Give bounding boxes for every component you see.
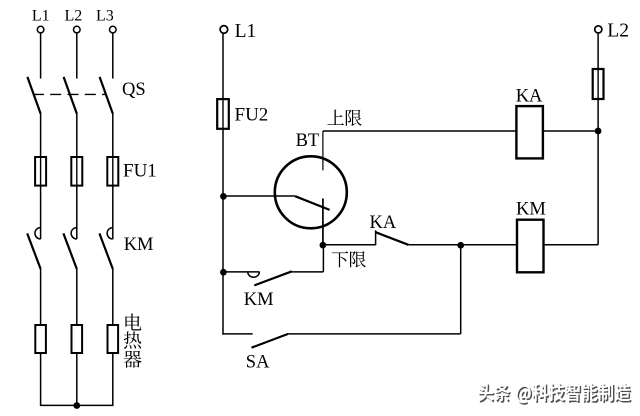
wire — [461, 244, 517, 246]
node: KM aux junction — [220, 269, 227, 276]
wire — [291, 271, 323, 273]
svg-text:SA: SA — [246, 353, 270, 373]
wire — [40, 186, 42, 239]
fuse FU2 — [217, 99, 229, 129]
wire — [76, 33, 78, 78]
svg-text:L1: L1 — [235, 21, 257, 42]
node: KA output junction — [595, 128, 602, 135]
bottom bus wire — [40, 404, 114, 406]
svg-text:KA: KA — [370, 213, 397, 233]
wire — [223, 271, 260, 273]
wire — [322, 245, 324, 272]
fuse FU1 pole 2 — [71, 157, 82, 186]
wire — [544, 244, 599, 246]
wire — [112, 269, 114, 325]
wire — [222, 272, 224, 335]
terminal L1 (control) — [220, 26, 228, 34]
wire — [222, 33, 224, 99]
wire — [222, 333, 252, 335]
wire — [40, 269, 42, 325]
node 上限 label — [327, 110, 344, 125]
wire — [76, 186, 78, 239]
fuse FU1 pole 3 — [107, 157, 118, 186]
wire 上限 to KA coil — [323, 130, 517, 132]
wire — [112, 113, 114, 157]
svg-text:L3: L3 — [96, 8, 114, 25]
wire — [288, 333, 461, 335]
BT moving blade — [295, 196, 330, 210]
wire — [112, 186, 114, 239]
wire — [40, 33, 42, 78]
fuse FU3 (L2 line) — [593, 69, 604, 99]
wire — [76, 269, 78, 325]
svg-text:KM: KM — [244, 290, 274, 310]
relay contact KA blade — [376, 232, 409, 245]
wire — [222, 129, 224, 196]
contactor KM main contact 3 — [107, 228, 113, 239]
heater element 1 — [35, 325, 46, 353]
node 下限 label — [332, 251, 349, 267]
junction — [73, 402, 80, 409]
svg-text:L2: L2 — [607, 21, 629, 42]
contactor KM aux contact arc — [248, 272, 260, 277]
svg-text:L2: L2 — [65, 8, 83, 25]
node: SA/KM-coil junction — [457, 242, 464, 249]
BT upper fixed contact — [322, 131, 324, 170]
wire — [76, 113, 78, 157]
wire — [597, 33, 599, 69]
relay contact KA fixed contact tick — [375, 230, 377, 245]
heater element 3 — [108, 325, 119, 353]
thermostat BT circle — [275, 156, 347, 228]
wire — [597, 99, 599, 131]
heater element 2 — [72, 325, 83, 353]
wire — [408, 244, 460, 246]
wire — [543, 130, 598, 132]
QS linkage dashed line — [33, 93, 106, 95]
relay coil KA — [516, 106, 543, 158]
wire — [76, 353, 78, 405]
wire — [460, 245, 462, 334]
wire — [40, 353, 42, 405]
watermark 头条@科技智能制造 — [478, 383, 632, 405]
terminal L1 — [37, 26, 44, 33]
contactor KM main contact 1 — [35, 228, 41, 239]
wire right rail — [597, 131, 599, 245]
svg-text:QS: QS — [122, 80, 146, 100]
BT common arm wire — [223, 195, 295, 197]
contactor coil KM — [517, 220, 544, 273]
switch QS pole 3 blade — [100, 77, 113, 114]
wire — [222, 196, 224, 272]
svg-text:KA: KA — [516, 86, 543, 106]
wire — [112, 353, 114, 405]
switch QS pole 2 blade — [64, 77, 77, 114]
wire — [323, 244, 376, 246]
BT lower fixed contact — [322, 198, 324, 244]
wire — [112, 33, 114, 78]
terminal L2 (control) — [595, 26, 602, 33]
node: 下限 junction — [320, 242, 327, 249]
node: BT common junction — [220, 193, 227, 200]
svg-text:BT: BT — [296, 131, 320, 151]
terminal L3 — [110, 26, 117, 33]
contactor KM aux blade — [254, 271, 292, 285]
svg-text:FU2: FU2 — [235, 105, 269, 126]
wire — [40, 113, 42, 157]
svg-text:KM: KM — [124, 235, 154, 255]
svg-text:FU1: FU1 — [123, 161, 157, 182]
switch SA blade — [252, 334, 288, 348]
svg-text:KM: KM — [516, 200, 546, 220]
heater label 电热器 — [124, 314, 142, 368]
fuse FU1 pole 1 — [35, 157, 46, 186]
switch QS pole 1 blade — [27, 77, 40, 114]
terminal L2 — [74, 26, 81, 33]
contactor KM main contact 2 — [71, 228, 77, 239]
svg-text:L1: L1 — [32, 8, 50, 25]
